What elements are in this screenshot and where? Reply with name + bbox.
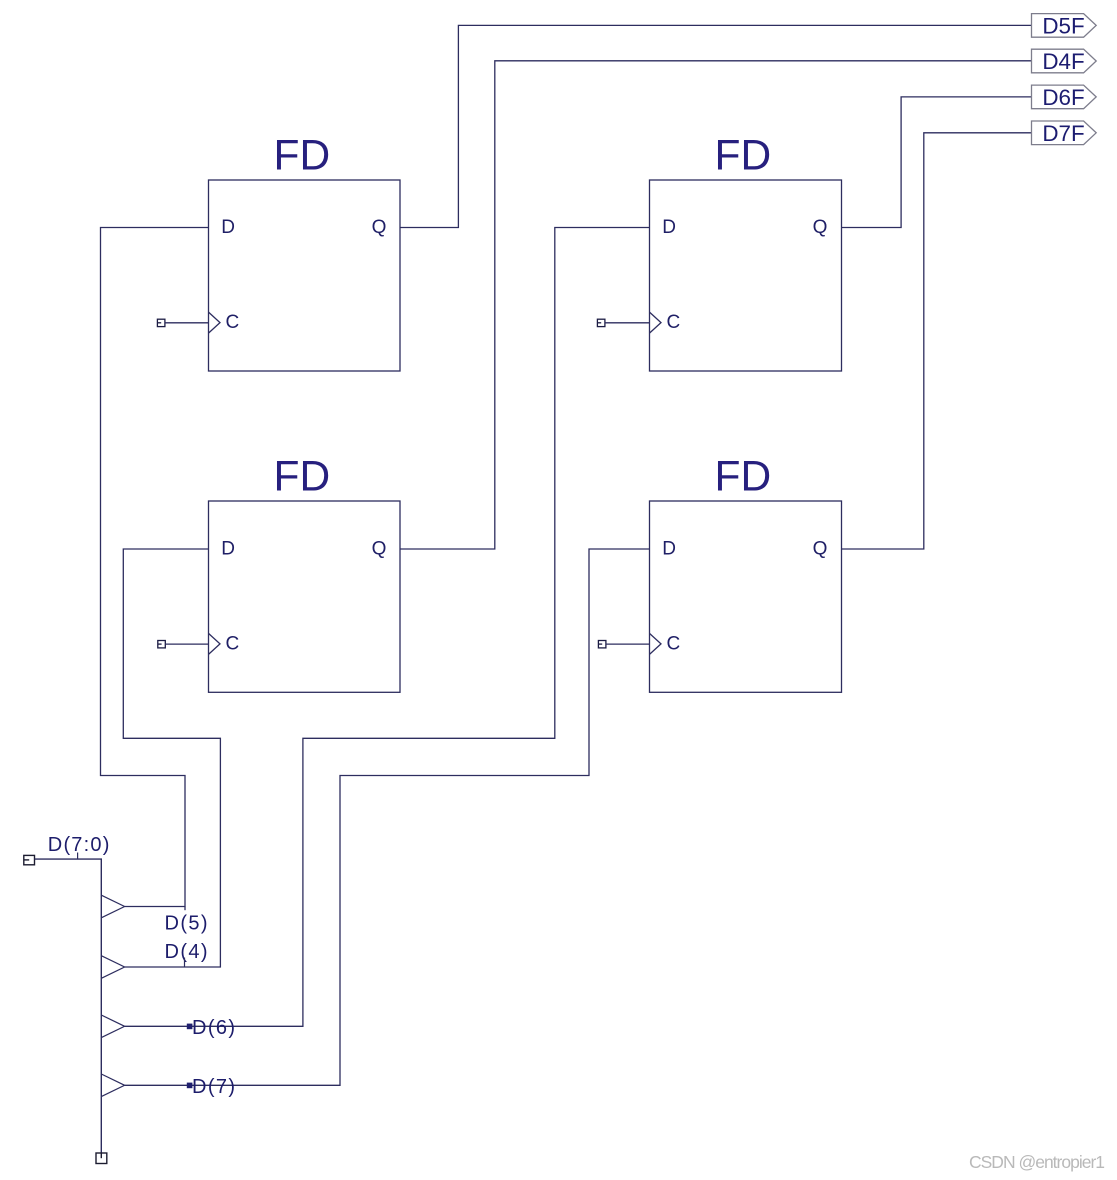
svg-text:Q: Q bbox=[372, 217, 387, 238]
wire net D(6) from bus tap to U2 D bbox=[125, 228, 650, 1027]
svg-text:Q: Q bbox=[813, 539, 828, 560]
output flag D5F bbox=[1032, 14, 1097, 39]
net label D(6) with attach square bbox=[187, 1017, 237, 1039]
clock input terminal of U1 bbox=[157, 319, 208, 326]
svg-text:D7F: D7F bbox=[1042, 121, 1084, 146]
svg-text:Q: Q bbox=[813, 217, 828, 238]
wire net D4F from U3 Q to flag bbox=[400, 61, 1032, 549]
flip-flop U4 (FD) bottom-right bbox=[650, 454, 842, 693]
svg-text:FD: FD bbox=[715, 133, 772, 180]
svg-text:D(7:0): D(7:0) bbox=[48, 834, 111, 856]
svg-text:D(4): D(4) bbox=[165, 941, 210, 963]
svg-text:C: C bbox=[226, 633, 240, 654]
output flag D7F bbox=[1032, 121, 1097, 146]
svg-text:D: D bbox=[221, 539, 235, 560]
clock input terminal of U2 bbox=[597, 319, 649, 326]
wire net D7F from U4 Q to flag bbox=[842, 133, 1032, 549]
svg-text:D: D bbox=[221, 217, 235, 238]
bus open-end terminal at bottom bbox=[96, 1153, 107, 1164]
net label D(7:0) bbox=[48, 834, 111, 859]
bus tap D(6) bbox=[101, 1015, 124, 1038]
watermark CSDN @entropier1 bbox=[969, 1152, 1104, 1172]
bus tap D(4) bbox=[101, 956, 124, 979]
svg-text:C: C bbox=[667, 633, 681, 654]
svg-text:FD: FD bbox=[274, 454, 331, 501]
net label D(7) with attach square bbox=[187, 1076, 237, 1098]
svg-text:CSDN @entropier1: CSDN @entropier1 bbox=[969, 1152, 1104, 1172]
svg-text:D6F: D6F bbox=[1042, 85, 1084, 110]
svg-text:D(7): D(7) bbox=[192, 1076, 237, 1098]
flip-flop U1 (FD) top-left bbox=[209, 133, 401, 372]
flip-flop U3 (FD) bottom-left bbox=[209, 454, 401, 693]
flip-flop U2 (FD) top-right bbox=[650, 133, 842, 372]
svg-text:D: D bbox=[662, 217, 676, 238]
input bus terminal D(7:0) bbox=[24, 855, 35, 864]
net label D(5) bbox=[165, 912, 210, 934]
wire net D(4) from bus tap to U3 D bbox=[123, 549, 220, 967]
bus tap D(5) bbox=[101, 895, 124, 918]
bus tap D(7) bbox=[101, 1074, 124, 1097]
svg-text:D: D bbox=[662, 539, 676, 560]
wire net D6F from U2 Q to flag bbox=[842, 97, 1032, 228]
bus wire D(7:0) bbox=[35, 859, 102, 1153]
svg-text:D(6): D(6) bbox=[192, 1017, 237, 1039]
output flag D4F bbox=[1032, 49, 1097, 74]
svg-text:C: C bbox=[226, 312, 240, 333]
wire net D(7) from bus tap to U4 D bbox=[125, 549, 650, 1085]
clock input terminal of U3 bbox=[158, 641, 209, 648]
svg-text:D(5): D(5) bbox=[165, 912, 210, 934]
svg-text:FD: FD bbox=[274, 133, 331, 180]
svg-text:FD: FD bbox=[715, 454, 772, 501]
svg-text:C: C bbox=[667, 312, 681, 333]
svg-text:D4F: D4F bbox=[1042, 49, 1084, 74]
wire net D(5) from bus tap to U1 D bbox=[101, 228, 209, 911]
wire net D5F from U1 Q to flag bbox=[400, 25, 1032, 227]
svg-text:D5F: D5F bbox=[1042, 14, 1084, 39]
output flag D6F bbox=[1032, 85, 1097, 110]
clock input terminal of U4 bbox=[598, 641, 649, 648]
net label D(4) bbox=[165, 941, 210, 967]
svg-text:Q: Q bbox=[372, 539, 387, 560]
